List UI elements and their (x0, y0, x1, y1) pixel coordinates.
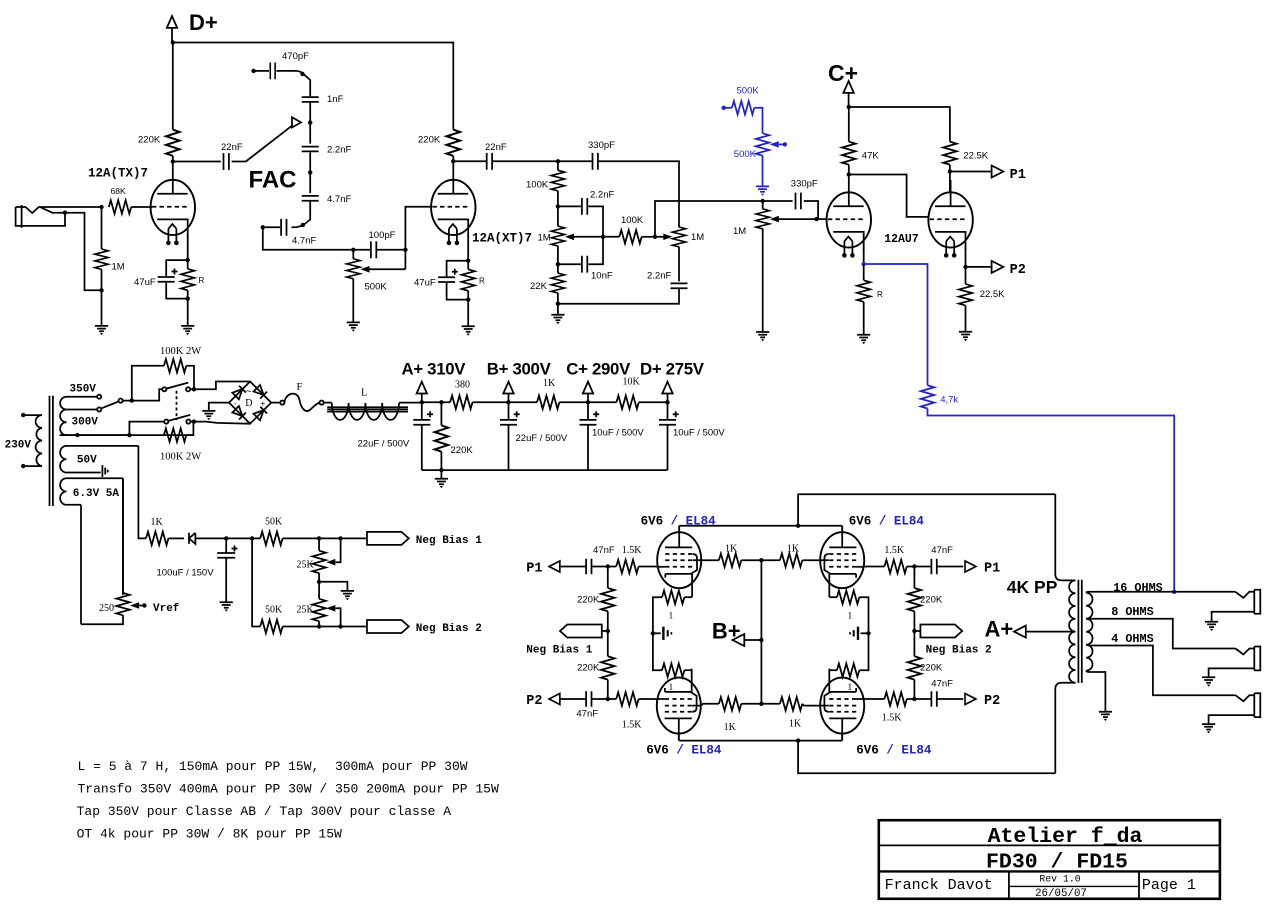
terminal C+ (843, 81, 853, 93)
terminal C+ rail (583, 382, 593, 394)
svg-text:10K: 10K (623, 377, 641, 388)
svg-text:L: L (361, 387, 367, 398)
wire secondary common (1086, 671, 1105, 712)
ground cathode a (857, 335, 870, 344)
node bias filter (224, 536, 228, 540)
wiper 25K upper (326, 559, 335, 566)
svg-text:47nF: 47nF (931, 545, 953, 556)
tube 6V6 V1 (657, 526, 702, 598)
switch mains lower (60, 422, 165, 436)
node wiper tie 1 (338, 536, 342, 540)
node FAC bottom (301, 223, 305, 227)
node cathode b (963, 265, 967, 269)
capacitor 47nF P1 (586, 559, 591, 574)
svg-text:220K: 220K (577, 595, 600, 606)
svg-text:Vref: Vref (153, 603, 180, 615)
transformer core (50, 396, 53, 506)
svg-text:22uF / 500V: 22uF / 500V (516, 433, 568, 444)
resistor 68K (109, 200, 131, 213)
terminal D+ rail (662, 382, 672, 394)
node 500K top (351, 248, 355, 252)
wire cap branch top (166, 260, 188, 276)
arrow P2 right (965, 693, 976, 704)
svg-text:1.5K: 1.5K (622, 545, 643, 556)
OT center tap (1026, 631, 1076, 633)
svg-text:6V6 / EL84: 6V6 / EL84 (641, 515, 717, 529)
svg-text:Rev 1.0: Rev 1.0 (1039, 874, 1080, 885)
ground tone stack (551, 315, 564, 324)
svg-text:22nF: 22nF (221, 142, 243, 153)
svg-text:1M: 1M (691, 232, 704, 243)
svg-text:P2: P2 (526, 694, 542, 709)
svg-text:220K: 220K (577, 662, 600, 673)
resistor 10K rail (616, 396, 638, 409)
node blue at 16 ohms (1172, 590, 1176, 594)
ground bias mid (319, 582, 347, 591)
arrow B+ (744, 639, 762, 641)
wire bias rail 1 (226, 537, 260, 539)
resistor 1K rail (537, 396, 559, 409)
arrow P1 in (549, 561, 560, 572)
svg-text:350V: 350V (70, 383, 97, 395)
svg-text:26/05/07: 26/05/07 (1035, 888, 1087, 900)
svg-text:6V6 / EL84: 6V6 / EL84 (646, 743, 722, 757)
arrow P2 in (549, 693, 560, 704)
svg-text:100uF / 150V: 100uF / 150V (157, 568, 215, 579)
node P1 grid (606, 564, 610, 568)
svg-text:1: 1 (848, 611, 853, 621)
potentiometer 1M PI grid (762, 201, 764, 209)
svg-text:Franck Davot: Franck Davot (885, 877, 993, 894)
svg-text:25K: 25K (297, 560, 315, 571)
resistor 1.5K V1 (608, 566, 616, 568)
ground bias cap (220, 602, 233, 611)
wire B+ center (760, 560, 762, 704)
OT secondary (1086, 593, 1092, 671)
wiper 500K blue (770, 141, 779, 148)
FAC switch arm (246, 126, 292, 162)
svg-text:4.7nF: 4.7nF (292, 236, 316, 247)
svg-text:220K: 220K (920, 662, 943, 673)
resistor 4.7k blue (921, 385, 934, 408)
ground jack1 (1205, 622, 1218, 631)
capacitor 22uF/500V no2 (508, 402, 510, 420)
node wiper tie 2 (338, 624, 342, 628)
fuse F (271, 402, 280, 404)
resistor 220K lower-right (913, 631, 915, 656)
svg-text:1K: 1K (725, 543, 738, 554)
svg-text:~: ~ (246, 418, 252, 429)
resistor 22.5K cathode b (965, 267, 967, 284)
svg-text:Neg Bias 1: Neg Bias 1 (526, 645, 592, 657)
node rail D+ (171, 40, 175, 44)
arrow P2 out (966, 266, 992, 268)
svg-text:500K: 500K (365, 282, 388, 293)
svg-text:2.2nF: 2.2nF (327, 145, 351, 156)
resistor 220K bleed (440, 402, 442, 425)
svg-text:50K: 50K (265, 517, 283, 528)
node grid 1 (99, 205, 103, 209)
svg-text:100K 2W: 100K 2W (160, 346, 201, 357)
svg-text:1M: 1M (538, 232, 551, 243)
node 25K mid (317, 580, 321, 584)
svg-text:1.5K: 1.5K (622, 720, 643, 731)
tube 6V6 V4 (820, 669, 865, 741)
svg-text:220K: 220K (418, 135, 441, 146)
svg-text:100pF: 100pF (369, 230, 396, 241)
wire 8 ohms (1086, 619, 1235, 649)
wire rail bottom return (422, 469, 668, 471)
node 100K lower left (127, 433, 131, 437)
resistor 220K upper-left (607, 567, 609, 589)
svg-text:330pF: 330pF (588, 140, 615, 151)
node bass wiper (653, 235, 657, 239)
node neg bias 1 (606, 629, 610, 633)
svg-text:1nF: 1nF (327, 94, 344, 105)
wire plate rail top (679, 526, 842, 533)
svg-text:220K: 220K (920, 595, 943, 606)
tube 12AU7b (928, 192, 972, 257)
resistor 100K 2W lower (164, 428, 186, 441)
wire OT bottom (798, 741, 1055, 774)
ground cathode b (959, 332, 972, 341)
node P2 grid (606, 697, 610, 701)
svg-text:L = 5 à 7 H, 150mA pour PP 15W: L = 5 à 7 H, 150mA pour PP 15W, 300mA po… (78, 759, 468, 774)
node P1 out right (912, 564, 916, 568)
node 4.7nF left (261, 225, 265, 229)
node OT bottom tap (796, 738, 800, 742)
svg-text:1M: 1M (112, 262, 125, 273)
wire blue feedback (864, 264, 928, 385)
terminal 300V (97, 407, 101, 411)
chassis tick 50V (102, 465, 105, 477)
wire top rail to second stage (173, 43, 454, 130)
svg-text:R: R (199, 276, 205, 285)
jack 16 ohms (1212, 590, 1261, 622)
tube 12A(TX)7 (151, 180, 195, 245)
ground 1M PI (756, 332, 769, 341)
resistor R cathode2 (462, 269, 475, 291)
dashed gang link (176, 391, 178, 420)
diode bridge BL (232, 406, 246, 420)
jack 8 ohms (1209, 647, 1261, 678)
potentiometer 1M bass (672, 227, 685, 247)
diode bridge BR (253, 407, 267, 421)
svg-text:P1: P1 (1010, 168, 1026, 183)
node B+ bottom (759, 702, 763, 706)
chassis ground left (653, 632, 661, 634)
node B+ tap (759, 638, 763, 642)
svg-text:+: + (261, 399, 266, 408)
svg-text:Neg Bias 2: Neg Bias 2 (416, 623, 482, 635)
svg-text:Neg Bias 1: Neg Bias 1 (416, 535, 482, 547)
svg-text:220K: 220K (138, 135, 161, 146)
resistor 100K 2W upper (132, 366, 164, 401)
resistor 47K (848, 107, 850, 142)
svg-text:230V: 230V (5, 440, 32, 452)
svg-text:Atelier f_da: Atelier f_da (988, 825, 1143, 849)
resistor 220K lower-left (607, 631, 609, 656)
jack input (16, 205, 102, 290)
wire 6.3V to 250 pot (81, 478, 123, 624)
node caps mid (601, 235, 605, 239)
node jack shunt (63, 211, 67, 215)
svg-text:47uF: 47uF (414, 278, 436, 289)
svg-text:22uF / 500V: 22uF / 500V (358, 439, 410, 450)
capacitor 470pF (251, 69, 255, 73)
resistor 220K upper-right (913, 567, 915, 589)
svg-text:C+: C+ (828, 60, 858, 86)
svg-text:D: D (245, 398, 252, 409)
node 220K bleed (439, 400, 443, 404)
diode bias (189, 533, 226, 544)
resistor 22K (557, 264, 559, 273)
ground jack2 (1202, 677, 1215, 686)
svg-text:100K: 100K (621, 215, 644, 226)
svg-text:A+ 310V: A+ 310V (402, 360, 467, 379)
wiper 1M PI (770, 216, 779, 223)
node cathode a (blue junction) (862, 262, 866, 266)
resistor 1K bias (146, 532, 168, 545)
capacitor 100uF/150V (225, 538, 227, 553)
svg-text:P2: P2 (984, 694, 1000, 709)
OT core (1078, 580, 1081, 683)
cathode resistor 1 V3 (653, 633, 662, 670)
wire selector out (123, 391, 160, 400)
wire cathode 1 (187, 235, 189, 260)
wiper 250 (130, 602, 139, 609)
svg-text:380: 380 (455, 380, 470, 391)
wire to ground (101, 290, 103, 326)
wiper 25K lower (326, 605, 335, 612)
wire 50V to bias (138, 446, 146, 539)
svg-text:1: 1 (669, 611, 674, 621)
ground cathode2 (462, 326, 475, 335)
wire plate rail bottom (679, 734, 842, 741)
node switch out lower (192, 419, 196, 423)
capacitor 1nF (302, 97, 319, 102)
node cathode 1 (186, 258, 190, 262)
tube 6V6 V3 (656, 669, 701, 741)
svg-text:22K: 22K (530, 281, 548, 292)
resistor R cathode a (863, 264, 865, 280)
svg-text:6.3V 5A: 6.3V 5A (73, 488, 120, 500)
potentiometer 25K lower (318, 582, 320, 599)
svg-text:A+: A+ (985, 617, 1014, 642)
svg-text:47nF: 47nF (931, 678, 953, 689)
capacitor 10uF/500V no1 (587, 402, 589, 420)
ground bridge (209, 403, 229, 411)
node 470pF bend (300, 72, 304, 76)
node FAC pos1 (308, 120, 312, 124)
terminal D+ (167, 16, 177, 28)
chassis ground right (861, 632, 869, 634)
wire D+ down to rail (171, 28, 173, 43)
resistor 220K stage2 (447, 130, 460, 156)
svg-text:P2: P2 (1010, 263, 1026, 278)
node OT top tap (796, 524, 800, 528)
svg-text:FAC: FAC (249, 167, 297, 194)
svg-text:500K: 500K (734, 149, 757, 160)
svg-text:1: 1 (669, 683, 674, 693)
wire to grid of 12AU7a (817, 218, 827, 220)
svg-text:100K 2W: 100K 2W (160, 451, 201, 462)
svg-text:C+ 290V: C+ 290V (566, 360, 631, 379)
svg-text:47K: 47K (862, 150, 880, 161)
svg-text:FD30 / FD15: FD30 / FD15 (986, 850, 1128, 874)
svg-text:B+: B+ (712, 619, 741, 644)
switch selector lever (101, 402, 118, 409)
svg-text:2.2nF: 2.2nF (647, 271, 671, 282)
capacitor 2.2nF FAC (302, 147, 319, 152)
diode bridge TL (232, 386, 246, 400)
diode bridge TR (253, 385, 267, 399)
svg-text:Neg Bias 2: Neg Bias 2 (926, 645, 992, 657)
node blue left (722, 106, 726, 110)
winding 6.3V (60, 478, 66, 505)
capacitor 4.7nF FAC (302, 196, 319, 201)
screen resistor 1K V2 (761, 559, 780, 561)
svg-text:1: 1 (848, 683, 853, 693)
OT primary (1055, 494, 1075, 580)
capacitor 22nF stage2 out (453, 160, 486, 162)
winding 230V primary (23, 415, 42, 466)
flag Neg Bias 1 amp (602, 630, 608, 632)
capacitor 47uF stage1 (158, 277, 175, 282)
node 100K tap (130, 398, 134, 402)
node treble cap (556, 204, 560, 208)
title block frame (879, 820, 1220, 899)
wire cathode b (965, 248, 967, 267)
node cathode 2 (466, 259, 470, 263)
node 22K bottom (556, 302, 560, 306)
terminal B+ (503, 382, 513, 394)
resistor 50K upper (260, 532, 282, 545)
wire C+ rail (849, 107, 950, 142)
wire 16 ohms (1086, 591, 1235, 594)
svg-text:50V: 50V (77, 455, 97, 467)
svg-text:D+: D+ (189, 10, 218, 35)
capacitor 2.2nF bass (671, 283, 688, 288)
capacitor 22nF stage1 out (173, 161, 221, 163)
capacitor 22uF/500V no1 (421, 402, 423, 420)
resistor 1.5K V2 (864, 566, 884, 568)
svg-text:470pF: 470pF (282, 51, 309, 62)
screen resistor 1K V4 (761, 703, 780, 705)
terminal A+ (421, 394, 423, 403)
wire 68K to grid (131, 206, 152, 208)
potentiometer 500K blue (756, 133, 769, 155)
svg-text:4,7k: 4,7k (940, 395, 958, 406)
resistor 100K mid (603, 236, 619, 238)
svg-text:1.5K: 1.5K (884, 545, 905, 556)
svg-text:1K: 1K (789, 719, 802, 730)
svg-text:R: R (479, 277, 485, 286)
svg-text:220K: 220K (451, 445, 474, 456)
node A+ (420, 400, 424, 404)
capacitor 47nF P2 right (914, 698, 931, 700)
winding 350V/300V secondary (60, 397, 66, 435)
ground input (95, 326, 108, 335)
ground 500K (347, 322, 360, 331)
svg-text:12A(TX)7: 12A(TX)7 (88, 166, 148, 180)
wire rail A-B (422, 401, 450, 403)
bridge rectifier D (229, 382, 271, 424)
wire OT top (798, 494, 1055, 525)
svg-text:12AU7: 12AU7 (884, 233, 919, 246)
svg-text:P1: P1 (984, 562, 1000, 577)
node 1M bottom (99, 288, 103, 292)
svg-text:47nF: 47nF (593, 545, 615, 556)
arrow P1 out (950, 171, 992, 173)
svg-text:250: 250 (99, 603, 114, 614)
node B+ top (759, 558, 763, 562)
svg-text:~: ~ (246, 387, 252, 398)
resistor 1.5K V3 (608, 698, 616, 700)
svg-text:4.7nF: 4.7nF (327, 194, 351, 205)
node cathode join left (651, 631, 655, 635)
tube 12AU7a (827, 192, 871, 257)
resistor 220K stage1 (166, 130, 179, 156)
svg-text:1.5K: 1.5K (882, 713, 903, 724)
terminal 350V (97, 395, 101, 399)
svg-text:47uF: 47uF (134, 277, 156, 288)
svg-text:F: F (297, 382, 303, 393)
svg-text:OT 4k pour PP 30W / 8K pour PP: OT 4k pour PP 30W / 8K pour PP 15W (77, 827, 342, 842)
svg-text:22.5K: 22.5K (963, 150, 988, 161)
flag Neg Bias 2 amp (914, 630, 920, 632)
node plate 12AU7a (847, 172, 851, 176)
wiper 1M bass (655, 236, 664, 238)
node 25K bottom (317, 624, 321, 628)
node C+ (586, 400, 590, 404)
node neg bias 2 (912, 629, 916, 633)
capacitor 100pF (353, 249, 371, 251)
winding 50V (60, 446, 66, 473)
capacitor 10uF/500V no2 (667, 402, 669, 420)
svg-text:Tap 350V pour Classe AB / Tap: Tap 350V pour Classe AB / Tap 300V pour … (77, 804, 452, 819)
svg-text:1K: 1K (724, 722, 737, 733)
inductor L (332, 403, 399, 420)
svg-text:D+ 275V: D+ 275V (640, 360, 705, 379)
wire to grid 2 (405, 207, 430, 250)
potentiometer 500K volume (352, 250, 354, 259)
flag Neg Bias 1 psu (367, 532, 409, 545)
svg-text:68K: 68K (111, 186, 126, 196)
svg-text:330pF: 330pF (791, 178, 818, 189)
node tone top (556, 159, 560, 163)
node bias split (250, 536, 254, 540)
svg-text:4K PP: 4K PP (1007, 577, 1058, 597)
capacitor 330pF tone (558, 160, 593, 162)
svg-text:10nF: 10nF (591, 271, 613, 282)
ground rail (435, 479, 448, 488)
cathode resistor 1 V1 (684, 596, 692, 598)
svg-text:12A(XT)7: 12A(XT)7 (472, 232, 532, 246)
jack 4 ohms (1209, 693, 1261, 724)
svg-text:47nF: 47nF (576, 709, 598, 720)
capacitor 2.2nF treble (558, 205, 581, 207)
node B+ (506, 400, 510, 404)
wire FAC return (263, 227, 354, 250)
ground OT (1099, 712, 1112, 721)
wire plate-to-grid coupling (849, 175, 929, 217)
svg-text:8 OHMS: 8 OHMS (1111, 605, 1153, 619)
node C+ (847, 105, 851, 109)
potentiometer 250 (116, 593, 129, 615)
node FAC pos2 (308, 170, 312, 174)
cathode resistor 1 V2 (829, 596, 837, 598)
